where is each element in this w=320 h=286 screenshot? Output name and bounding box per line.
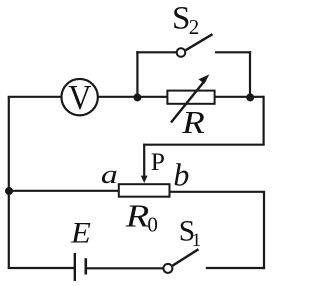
slider P arrowhead — [141, 176, 148, 183]
wire middle horizontal left — [8, 96, 62, 98]
svg-text:a: a — [101, 160, 118, 189]
wire P branch horizontal — [143, 144, 265, 146]
svg-text:R: R — [125, 198, 150, 233]
svg-text:0: 0 — [147, 213, 158, 237]
wire bottom S1 to right — [206, 267, 265, 269]
battery E — [75, 253, 86, 281]
wire P branch vertical to slider — [143, 144, 145, 177]
wire S2 right riser — [249, 51, 251, 97]
wire S2 left riser — [136, 51, 138, 97]
node B (right middle junction) — [246, 93, 254, 101]
wire S2 right horizontal — [215, 51, 251, 53]
svg-text:S: S — [172, 1, 190, 37]
svg-text:P: P — [151, 147, 165, 176]
node C (left rail junction) — [5, 187, 13, 195]
wire bottom battery to S1 — [86, 267, 163, 269]
svg-text:b: b — [173, 156, 189, 192]
wire a side — [8, 190, 119, 192]
wire P branch right vertical — [263, 96, 265, 145]
svg-text:1: 1 — [192, 230, 202, 251]
svg-text:E: E — [70, 216, 91, 249]
switch S1 — [163, 249, 198, 273]
wire resistor right to corner — [215, 96, 264, 98]
potentiometer R0 — [119, 184, 170, 197]
wire S2 left horizontal — [136, 51, 176, 53]
switch S2 — [177, 34, 213, 57]
wire bottom rail left — [8, 267, 75, 269]
node A (left middle junction) — [133, 93, 141, 101]
wire voltmeter to node — [98, 96, 168, 98]
resistor R (variable) — [167, 74, 214, 122]
wire left rail — [8, 97, 10, 268]
wire b side — [170, 191, 266, 193]
svg-text:R: R — [181, 105, 205, 140]
voltmeter V — [61, 79, 97, 118]
svg-text:V: V — [68, 79, 91, 118]
svg-text:2: 2 — [189, 15, 200, 39]
wire right rail — [263, 191, 265, 269]
